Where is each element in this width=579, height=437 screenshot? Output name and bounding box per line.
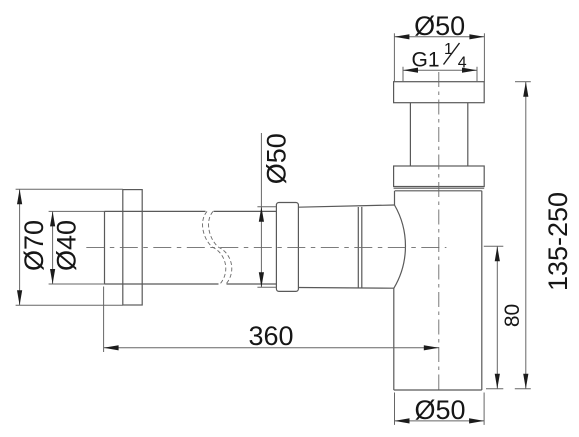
- arrows Ø50 top: [394, 34, 484, 39]
- svg-text:360: 360: [248, 321, 293, 351]
- dimension Ø50 bottom: lines: [395, 393, 485, 425]
- arrows 135-250: [523, 82, 528, 389]
- arrows G1 1/4: [403, 68, 477, 73]
- dimension 360: lines: [104, 287, 439, 353]
- inlet bulge arc: [394, 205, 406, 288]
- label Ø50 top: [414, 11, 465, 41]
- arrows 80: [495, 246, 500, 388]
- svg-text:G1: G1: [412, 48, 440, 71]
- svg-text:Ø40: Ø40: [52, 220, 82, 271]
- arrows Ø50 bottom: [395, 418, 485, 423]
- dimension 135-250: lines: [515, 82, 531, 389]
- label 80 (rotated): [501, 304, 524, 327]
- arrows Ø40: [50, 211, 55, 284]
- centerline horizontal: [86, 246, 446, 248]
- svg-text:1: 1: [444, 41, 453, 58]
- arrows 360: [104, 345, 439, 350]
- top riser pipe: [410, 103, 467, 166]
- top flange G1 1/4: [394, 82, 485, 103]
- label 135-250 (rotated): [543, 192, 573, 291]
- svg-text:Ø50: Ø50: [261, 133, 291, 184]
- dimension Ø70: lines: [16, 189, 123, 305]
- svg-text:Ø50: Ø50: [414, 395, 465, 425]
- dimension Ø50 top: lines: [394, 33, 484, 81]
- dimension G1 1/4: lines: [403, 67, 477, 82]
- svg-text:135-250: 135-250: [543, 192, 573, 291]
- label Ø70 (rotated): [19, 220, 49, 271]
- svg-text:4: 4: [458, 55, 467, 72]
- arrows Ø70: [17, 189, 22, 305]
- label Ø50 bottom: [414, 395, 465, 425]
- arrows Ø50 left of nut: [259, 207, 264, 287]
- dimension Ø50 left of nut: lines: [257, 133, 276, 287]
- body top nut: [394, 166, 485, 188]
- label Ø40 (rotated): [52, 220, 82, 271]
- label 360: [248, 321, 293, 351]
- tailpiece Ø50: [298, 205, 394, 288]
- wall flange (escutcheon): [123, 190, 142, 305]
- pipe break symbol: [203, 211, 232, 284]
- svg-text:80: 80: [501, 304, 524, 327]
- label G1 1/4: [412, 41, 467, 72]
- centerline vertical: [438, 72, 440, 390]
- dimension Ø40: lines: [49, 211, 105, 284]
- svg-text:Ø70: Ø70: [19, 220, 49, 271]
- trap body cup: [394, 191, 482, 390]
- compression nut: [276, 203, 298, 292]
- horizontal inlet pipe Ø40: [105, 211, 277, 284]
- label Ø50 left of nut (rotated): [261, 133, 291, 184]
- dimension 80: lines: [484, 246, 504, 388]
- svg-text:Ø50: Ø50: [414, 11, 465, 41]
